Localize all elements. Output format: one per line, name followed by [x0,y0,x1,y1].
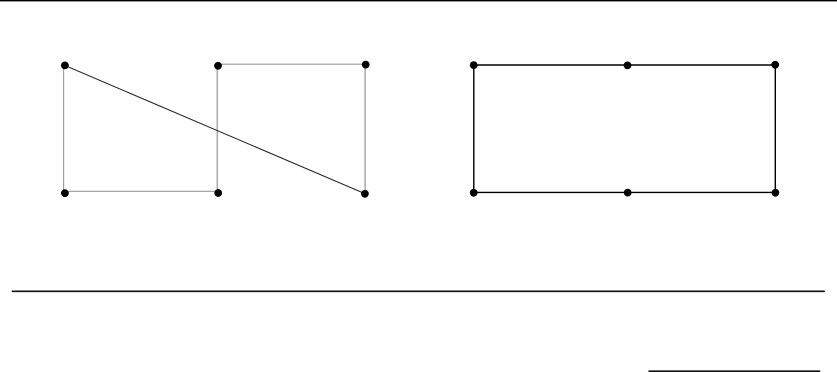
node: left graph top-right vertex [362,61,370,69]
node: left graph bottom-left vertex [61,189,69,197]
node: right graph top-right vertex [771,61,779,69]
node: left graph top-middle vertex [214,62,222,70]
wire: right graph right edge TR-BR [774,65,776,192]
node: right graph bottom-right vertex [772,189,780,197]
top page rule [0,0,837,1]
node: right graph top-middle vertex [624,62,632,70]
node: right graph top-left vertex [470,61,478,69]
wire: right graph left edge TL-BL [473,65,475,192]
node: left graph bottom-middle vertex [214,189,222,197]
wire: right graph top edge TL-TM-TR [474,64,776,66]
node: left graph top-left vertex [61,62,69,70]
wire: left graph edge TL-BL (left vertical) [63,65,65,191]
wire: left graph diagonal edge TL-BR [65,66,365,194]
node: right graph bottom-left vertex [470,189,478,197]
mid-page horizontal rule [12,290,825,292]
wire: left graph edge TM-BM (middle vertical) [216,64,218,191]
node: left graph bottom-right vertex [361,190,369,198]
wire: left graph edge BL-BM (bottom horizontal) [64,190,218,192]
wire: right graph bottom edge BL-BM-BR [474,191,776,193]
node: right graph bottom-middle vertex [624,189,632,197]
wire: left graph edge TM-TR (top horizontal) [217,63,365,65]
wire: left graph edge TR-BR (right vertical) [364,64,366,193]
bottom-right short rule [649,370,821,372]
